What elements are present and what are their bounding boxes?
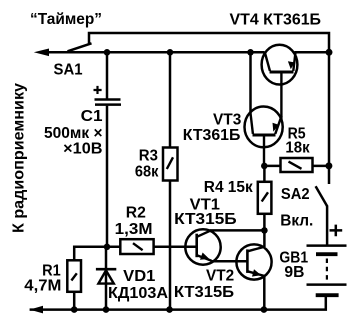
- svg-text:1,3М: 1,3М: [115, 221, 153, 238]
- svg-text:500мк ×: 500мк ×: [44, 125, 103, 142]
- svg-text:C1: C1: [81, 108, 103, 125]
- svg-text:Вкл.: Вкл.: [280, 212, 313, 229]
- svg-text:КТ361Б: КТ361Б: [183, 127, 241, 144]
- svg-text:9В: 9В: [284, 264, 304, 281]
- svg-text:К радиоприемнику: К радиоприемнику: [11, 83, 28, 233]
- svg-text:SA2: SA2: [281, 186, 310, 203]
- svg-text:68к: 68к: [135, 164, 159, 181]
- svg-text:4,7М: 4,7М: [24, 278, 61, 295]
- svg-text:КД103А: КД103А: [108, 285, 168, 302]
- svg-text:КТ315Б: КТ315Б: [174, 284, 234, 301]
- svg-text:SA1: SA1: [54, 61, 83, 78]
- svg-text:VT4 КТ361Б: VT4 КТ361Б: [230, 12, 322, 29]
- svg-text:×10В: ×10В: [63, 140, 102, 157]
- svg-text:VT3: VT3: [213, 112, 241, 129]
- svg-text:R4 15к: R4 15к: [204, 179, 254, 196]
- svg-text:VD1: VD1: [123, 268, 155, 285]
- svg-text:“Таймер”: “Таймер”: [30, 11, 102, 28]
- svg-text:18к: 18к: [285, 139, 310, 156]
- svg-text:R3: R3: [139, 148, 158, 165]
- svg-text:VT2: VT2: [206, 268, 234, 285]
- svg-text:R2: R2: [126, 205, 146, 222]
- svg-text:КТ315Б: КТ315Б: [174, 211, 237, 228]
